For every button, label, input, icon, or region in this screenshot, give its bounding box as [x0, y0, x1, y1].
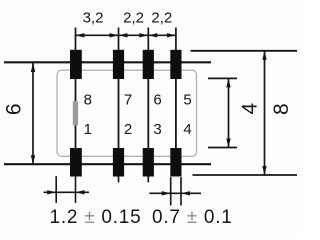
dimension 0.7 line with inward arrows	[149, 192, 201, 194]
node: column 3 centerline top extension	[147, 28, 149, 51]
svg-text:6: 6	[153, 92, 161, 109]
svg-text:5: 5	[183, 92, 191, 109]
svg-text:3,2: 3,2	[83, 9, 104, 26]
dimension 8 vertical line with arrows	[264, 51, 266, 175]
wire: 8-dim top reference line	[191, 50, 298, 52]
body outline (component case, gray)	[57, 70, 197, 156]
wire: bottom reference line through pads (6-dim bottom)	[4, 163, 211, 165]
svg-text:1: 1	[84, 121, 92, 138]
svg-text:1.2 ± 0.15: 1.2 ± 0.15	[50, 207, 142, 228]
wire: column 2 stub below pad 2	[118, 177, 120, 183]
dimension 6 vertical line with arrows	[32, 63, 34, 164]
dimension 1.2 ticks	[55, 176, 57, 203]
pad pin 5 (top row)	[170, 50, 181, 79]
wire: column 4 centerline inside body	[175, 79, 177, 148]
arrows at c2	[110, 33, 119, 37]
wire: column 1 centerline inside body (lower)	[75, 125, 77, 148]
pad pin 1 (bottom row)	[70, 148, 82, 177]
svg-text:0.7 ± 0.1: 0.7 ± 0.1	[152, 207, 233, 228]
dimension 4 vertical line with arrows	[228, 78, 230, 147]
wire: column 3 stub below pad 3	[147, 177, 149, 183]
dimension 0.7 ticks	[170, 177, 172, 206]
polarity mark (gray bar) on column 1	[73, 101, 78, 125]
svg-text:6: 6	[3, 103, 26, 115]
arrow at c4 pointing right	[167, 33, 176, 37]
svg-text:8: 8	[84, 92, 92, 109]
wire: 8-dim bottom reference line	[193, 174, 298, 176]
dimension 3,2/2,2/2,2 line	[76, 34, 176, 36]
dimension 1.2 line with inward arrows	[44, 191, 90, 193]
wire: 4-dim bottom reference line	[208, 147, 237, 149]
wire: column 1 centerline inside body (upper)	[75, 79, 77, 101]
pad pin 7 (top row)	[113, 50, 124, 79]
node: column 2 centerline top extension	[118, 28, 120, 51]
node: column 4 centerline top extension	[175, 28, 177, 51]
node: column 1 centerline top extension	[75, 28, 77, 51]
svg-text:2: 2	[124, 121, 132, 138]
svg-text:2,2: 2,2	[123, 9, 144, 26]
svg-text:4: 4	[183, 121, 191, 138]
pad pin 3 (bottom row)	[143, 148, 154, 177]
pad pin 8 (top row)	[70, 50, 82, 79]
wire: column 3 centerline inside body	[147, 79, 149, 148]
wire: top reference line through pads (6-dim top)	[4, 61, 211, 63]
svg-text:8: 8	[270, 103, 293, 115]
pad pin 6 (top row)	[143, 50, 154, 79]
pad pin 2 (bottom row)	[113, 148, 124, 177]
svg-text:4: 4	[239, 103, 262, 115]
svg-text:2,2: 2,2	[151, 9, 172, 26]
pad pin 4 (bottom row)	[170, 148, 181, 177]
arrows at c3	[139, 33, 148, 37]
arrow at c1 pointing left	[76, 33, 85, 37]
wire: 4-dim top reference line	[208, 77, 237, 79]
wire: column 2 centerline inside body	[118, 79, 120, 148]
svg-text:7: 7	[124, 92, 132, 109]
svg-text:3: 3	[153, 121, 161, 138]
